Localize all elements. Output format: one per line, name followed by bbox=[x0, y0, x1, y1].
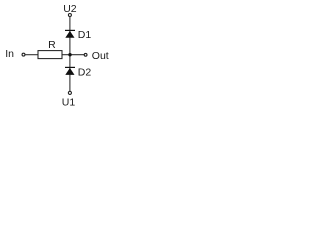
svg-text:D2: D2 bbox=[78, 67, 92, 79]
diode D2 bbox=[65, 67, 75, 75]
node: junction dot bbox=[68, 53, 71, 56]
svg-text:U2: U2 bbox=[63, 3, 77, 15]
wire: In terminal to resistor bbox=[25, 54, 38, 56]
svg-text:R: R bbox=[48, 39, 56, 51]
wire: vertical branch U2 to U1 bbox=[69, 17, 71, 91]
svg-text:In: In bbox=[5, 48, 14, 60]
terminal Out bbox=[84, 53, 87, 56]
svg-text:U1: U1 bbox=[62, 96, 76, 108]
resistor R bbox=[38, 51, 62, 59]
terminal U2 bbox=[68, 14, 71, 17]
wire: resistor to Out terminal bbox=[62, 54, 84, 56]
svg-text:Out: Out bbox=[92, 50, 109, 62]
terminal In bbox=[22, 53, 25, 56]
diode D1 bbox=[65, 30, 75, 37]
terminal U1 bbox=[68, 91, 71, 94]
svg-text:D1: D1 bbox=[78, 29, 92, 41]
